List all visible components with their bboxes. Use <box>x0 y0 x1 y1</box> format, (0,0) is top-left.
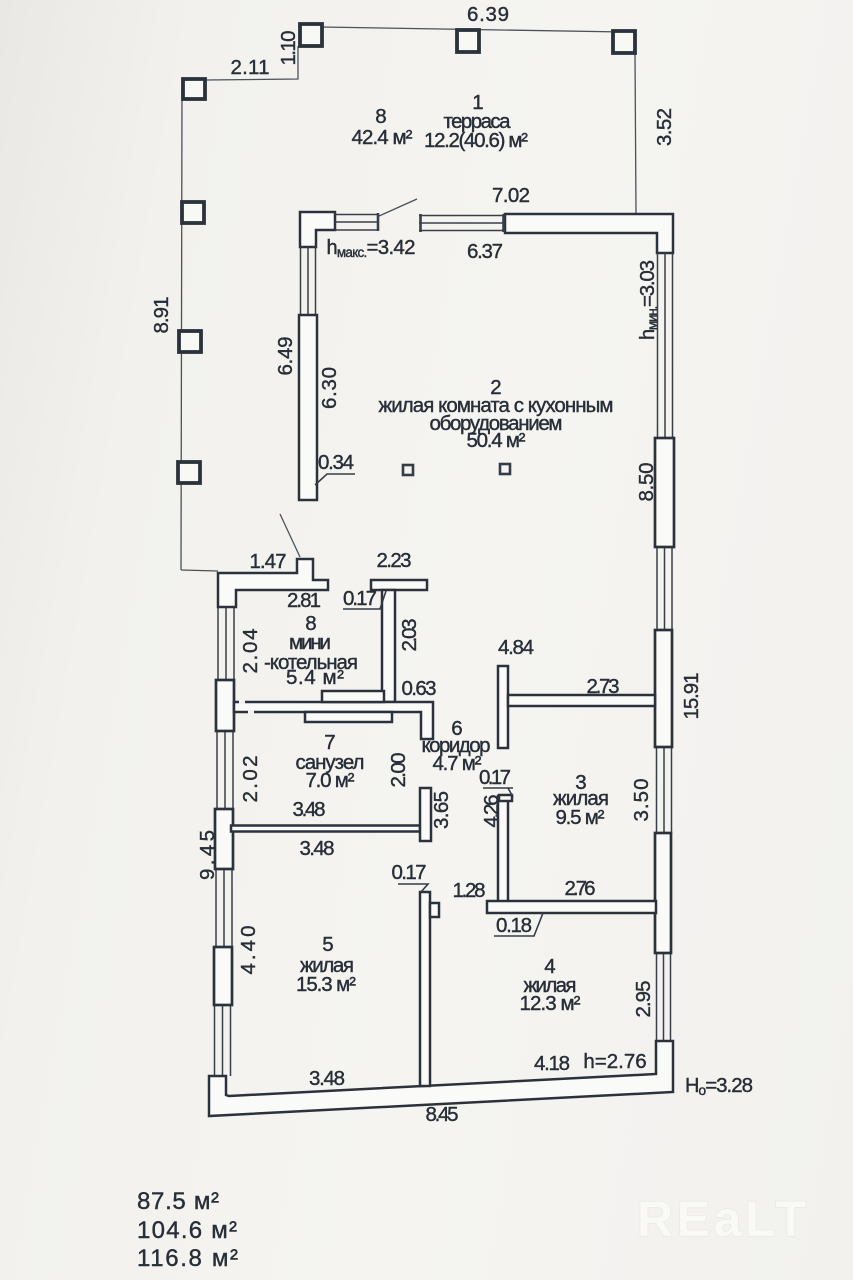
svg-text:0.18: 0.18 <box>496 914 532 937</box>
svg-text:1.10: 1.10 <box>277 31 300 66</box>
svg-text:3.50: 3.50 <box>630 779 653 822</box>
svg-text:0.34: 0.34 <box>318 451 354 474</box>
svg-text:0.17: 0.17 <box>479 766 511 789</box>
svg-text:8: 8 <box>375 105 386 128</box>
svg-text:4.84: 4.84 <box>498 636 534 659</box>
svg-text:50.4 м²: 50.4 м² <box>467 429 526 452</box>
svg-text:87.5 м²: 87.5 м² <box>137 1188 219 1215</box>
svg-text:3.65: 3.65 <box>430 791 453 829</box>
svg-text:7.0 м²: 7.0 м² <box>306 769 355 792</box>
svg-text:2.00: 2.00 <box>387 753 410 788</box>
svg-text:6.30: 6.30 <box>318 367 341 409</box>
svg-text:4.7 м²: 4.7 м² <box>433 752 482 775</box>
svg-text:15.3 м²: 15.3 м² <box>296 973 356 996</box>
svg-text:2.73: 2.73 <box>587 675 620 698</box>
svg-text:2.81: 2.81 <box>287 589 321 612</box>
svg-text:1.47: 1.47 <box>250 550 287 573</box>
svg-text:REaLT: REaLT <box>637 1191 806 1247</box>
svg-text:hмин.=3.03: hмин.=3.03 <box>636 260 660 340</box>
svg-text:2.23: 2.23 <box>377 549 412 572</box>
svg-text:2.03: 2.03 <box>398 619 421 652</box>
svg-text:8.45: 8.45 <box>426 1103 459 1126</box>
svg-text:3.48: 3.48 <box>293 798 326 821</box>
svg-text:5: 5 <box>322 933 333 956</box>
svg-text:2.04: 2.04 <box>239 629 262 674</box>
svg-text:5.4 м²: 5.4 м² <box>286 666 344 689</box>
svg-text:6.39: 6.39 <box>467 3 509 26</box>
svg-text:4.40: 4.40 <box>237 926 260 975</box>
svg-text:3.48: 3.48 <box>300 837 335 860</box>
svg-text:9.5 м²: 9.5 м² <box>556 806 605 829</box>
svg-text:3.48: 3.48 <box>309 1067 345 1090</box>
svg-text:0.17: 0.17 <box>392 861 427 884</box>
svg-text:15.91: 15.91 <box>680 673 703 720</box>
svg-text:0.17: 0.17 <box>343 587 377 610</box>
svg-text:12.3 м²: 12.3 м² <box>520 992 581 1015</box>
svg-text:9.45: 9.45 <box>196 830 219 880</box>
svg-text:8.50: 8.50 <box>635 463 658 502</box>
svg-text:1.28: 1.28 <box>453 879 486 902</box>
svg-text:42.4 м²: 42.4 м² <box>352 126 413 149</box>
svg-text:116.8 м²: 116.8 м² <box>137 1245 238 1272</box>
svg-text:2.76: 2.76 <box>565 877 596 900</box>
svg-text:h=2.76: h=2.76 <box>583 1050 646 1073</box>
svg-text:4.18: 4.18 <box>534 1052 570 1075</box>
svg-text:hмакс.=3.42: hмакс.=3.42 <box>327 236 416 260</box>
svg-text:0.63: 0.63 <box>402 677 437 700</box>
svg-text:Hо=3.28: Hо=3.28 <box>685 1074 753 1098</box>
svg-text:12.2(40.6) м²: 12.2(40.6) м² <box>424 129 528 152</box>
svg-text:3.52: 3.52 <box>653 108 676 146</box>
svg-text:2.02: 2.02 <box>239 756 262 803</box>
svg-text:2.11: 2.11 <box>231 56 270 79</box>
svg-text:6.37: 6.37 <box>467 240 503 263</box>
svg-text:6.49: 6.49 <box>274 337 297 376</box>
svg-text:104.6 м²: 104.6 м² <box>137 1217 237 1244</box>
svg-text:7.02: 7.02 <box>492 184 530 207</box>
svg-text:4.26: 4.26 <box>480 795 503 828</box>
svg-text:2.95: 2.95 <box>632 981 655 1018</box>
svg-text:8.91: 8.91 <box>150 297 173 334</box>
